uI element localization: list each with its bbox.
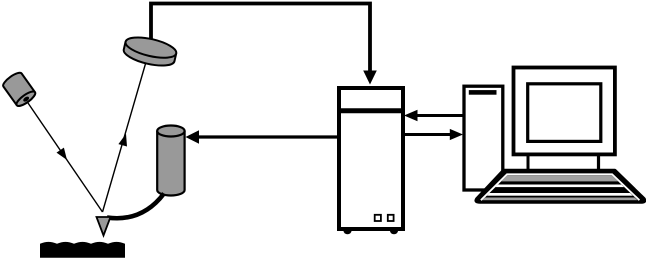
lens (tilted disk) [122, 33, 178, 69]
controller button 1 [375, 215, 381, 221]
detector cylinder [157, 131, 184, 195]
keyboard [460, 170, 646, 202]
incident beam (laser to sample) [28, 103, 103, 212]
arrowhead on incident beam [57, 148, 68, 160]
controller foot left [344, 231, 352, 234]
arrowhead into controller right [404, 110, 418, 121]
monitor stand leg left [527, 156, 530, 171]
keyboard white separator 2 [460, 193, 646, 196]
wire: controller to tower (lower) [405, 133, 452, 136]
controller foot right [390, 231, 398, 234]
controller box [339, 88, 403, 229]
laser aperture [22, 96, 30, 103]
monitor [514, 68, 615, 155]
controller button 2 [388, 215, 394, 221]
computer tower [464, 86, 503, 190]
arrowhead into detector [186, 130, 200, 144]
tower vent bar [469, 90, 497, 95]
cantilever arc (tip to detector) [107, 194, 164, 219]
arrowhead into tower left [450, 129, 463, 140]
monitor screen [528, 84, 601, 142]
arrowhead on reflected beam [118, 134, 127, 147]
reflected beam (sample to lens) [103, 62, 147, 212]
probe tip [97, 217, 111, 236]
monitor stand leg right [597, 156, 600, 171]
keyboard inner white outline [481, 174, 640, 200]
wire: tower to controller (upper) [415, 114, 464, 117]
controller front panel band [337, 108, 405, 113]
keyboard top key row (gray) [460, 175, 646, 181]
keyboard white separator 1 [460, 185, 646, 188]
wire: controller to detector [197, 135, 337, 138]
keyboard bottom row (gray) [460, 198, 646, 201]
sample surface (rough) [40, 242, 125, 258]
laser source (tilted can) [1, 70, 37, 108]
wire: lens to controller (top routed) [151, 4, 370, 73]
arrowhead into controller top [363, 71, 377, 85]
